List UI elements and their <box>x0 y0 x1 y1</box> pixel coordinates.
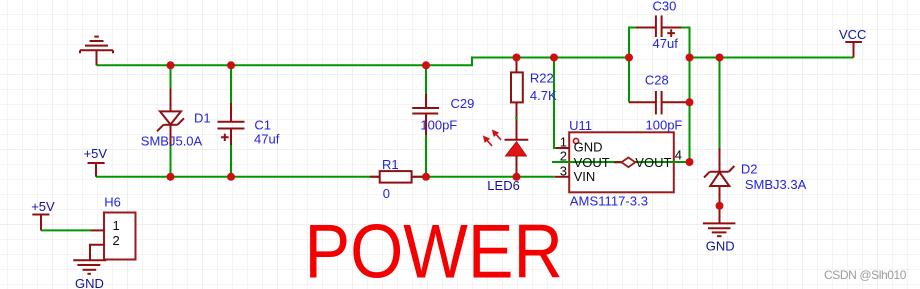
capacitor C28 <box>629 91 689 114</box>
capacitor C1 <box>218 103 245 145</box>
wire D1 bottom stub <box>170 146 172 177</box>
wire C30 C28 right vertical <box>682 28 690 163</box>
svg-text:GND: GND <box>706 239 735 254</box>
wire C29 top stub <box>425 65 427 94</box>
svg-text:GND: GND <box>75 276 104 289</box>
junction U11 pin1 branch <box>550 54 558 62</box>
wire D2 top <box>719 58 721 149</box>
junction D2 bottom <box>716 202 724 210</box>
diode D1 TVS <box>157 89 184 147</box>
wire C29 bottom stub <box>425 135 427 177</box>
svg-text:D1: D1 <box>194 110 211 125</box>
wire C30 C28 left vertical <box>629 28 636 103</box>
svg-text:C30: C30 <box>653 0 677 14</box>
svg-text:VIN: VIN <box>574 169 596 184</box>
svg-text:C28: C28 <box>645 73 669 88</box>
wire H6 pin1 to +5V <box>41 229 91 231</box>
svg-text:100pF: 100pF <box>646 118 683 133</box>
pin 1 stub <box>556 147 569 149</box>
junction C29 top <box>422 61 430 69</box>
wire D1 top stub <box>170 65 172 88</box>
VOUT inner wire over box <box>568 161 690 163</box>
svg-text:VCC: VCC <box>839 27 866 42</box>
regulator U11 <box>555 132 690 192</box>
junction D1 top <box>167 61 175 69</box>
wire GND rail left <box>97 58 630 66</box>
svg-text:2: 2 <box>560 149 567 164</box>
LED LED6 <box>484 117 528 177</box>
svg-text:1: 1 <box>113 218 120 233</box>
diode D2 TVS <box>704 148 734 223</box>
junction C1 bottom <box>227 173 235 181</box>
svg-text:C29: C29 <box>451 96 475 111</box>
junction C1 top <box>227 61 235 69</box>
svg-text:4.7K: 4.7K <box>530 88 557 103</box>
connector H6 <box>90 213 136 261</box>
svg-text:4: 4 <box>675 148 682 163</box>
wire C1 bottom stub <box>230 145 232 177</box>
svg-text:AMS1117-3.3: AMS1117-3.3 <box>570 194 648 209</box>
capacitor C30 <box>636 15 682 37</box>
junction GND rail / C30 C28 left <box>625 54 633 62</box>
svg-text:0: 0 <box>383 186 390 201</box>
wire R1 output to U11 pin3 <box>412 176 555 178</box>
resistor R22 <box>511 58 523 140</box>
resistor R1 <box>370 176 424 178</box>
svg-text:C1: C1 <box>254 117 271 132</box>
junction VCC rail / C30 C28 right <box>686 54 694 62</box>
svg-text:VOUT: VOUT <box>574 155 610 170</box>
svg-text:D2: D2 <box>741 162 758 177</box>
junction C29 bottom <box>422 173 430 181</box>
svg-text:SMBJ5.0A: SMBJ5.0A <box>141 133 203 148</box>
svg-text:1: 1 <box>560 135 567 150</box>
junction C28 right <box>686 98 694 106</box>
svg-text:R22: R22 <box>530 70 554 85</box>
svg-text:100pF: 100pF <box>420 118 457 133</box>
junction R22 top <box>513 54 521 62</box>
svg-text:U11: U11 <box>569 118 592 133</box>
svg-text:SMBJ3.3A: SMBJ3.3A <box>745 177 807 192</box>
svg-text:CSDN @Slh010: CSDN @Slh010 <box>824 268 907 282</box>
svg-text:GND: GND <box>574 139 603 154</box>
wire U11 pin1 to GND rail <box>554 58 558 149</box>
ground symbol under H6 <box>73 260 106 274</box>
wire VOUT through line <box>552 161 690 163</box>
wire VCC rail right <box>690 57 854 59</box>
svg-text:3: 3 <box>560 163 567 178</box>
wire C1 top stub <box>230 65 232 103</box>
svg-text:VOUT: VOUT <box>635 155 671 170</box>
diamond directive <box>614 161 622 163</box>
pin1 dot marker <box>573 138 578 143</box>
svg-text:R1: R1 <box>382 157 399 172</box>
svg-text:47uf: 47uf <box>254 132 280 147</box>
svg-text:+5V: +5V <box>84 146 108 161</box>
junction D1 bottom <box>167 173 175 181</box>
svg-text:47uf: 47uf <box>653 36 679 51</box>
ground symbol under D2 <box>703 223 736 236</box>
svg-text:POWER: POWER <box>305 210 563 289</box>
power port VCC <box>845 42 862 58</box>
power port +5V lower <box>32 215 49 231</box>
capacitor C29 <box>412 94 439 135</box>
ground earth symbol top left <box>80 37 113 66</box>
junction VOUT pin4 <box>686 158 694 166</box>
wire +5V bus left of R1 <box>96 176 380 178</box>
power port +5V upper <box>88 163 105 177</box>
svg-text:2: 2 <box>113 233 120 248</box>
pin 3 stub <box>555 176 569 178</box>
svg-text:+5V: +5V <box>31 199 55 214</box>
junction LED6 bottom <box>513 173 521 181</box>
junction D2 top <box>716 54 724 62</box>
svg-text:H6: H6 <box>104 194 121 209</box>
